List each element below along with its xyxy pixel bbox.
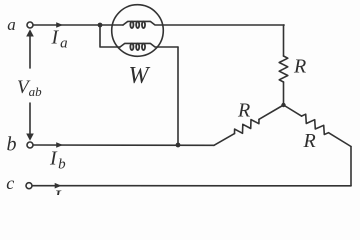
resistor R (phase a, vertical)	[279, 56, 288, 82]
svg-text:Ia: Ia	[51, 27, 68, 52]
wire: neutral node to right diagonal resistor	[284, 105, 302, 116]
voltage coil loop 2	[136, 44, 139, 51]
current coil loop 1	[130, 22, 133, 29]
svg-text:R: R	[237, 100, 250, 122]
wattmeter W current coil (in line a)	[123, 21, 284, 25]
svg-text:a: a	[7, 15, 16, 34]
current coil loop 2	[136, 22, 139, 29]
wire: voltage coil right lead down to line b	[177, 47, 179, 145]
node: junction dot on line a (voltage coil tap)	[98, 23, 103, 28]
current coil loop 3	[142, 22, 145, 29]
wire: diagonal down to line b corner	[214, 134, 235, 146]
arrowhead Vab up (at a)	[26, 29, 34, 36]
svg-text:c: c	[6, 173, 14, 193]
wire: resistor to neutral node	[283, 82, 285, 105]
svg-text:b: b	[7, 134, 17, 156]
terminal a	[27, 22, 33, 28]
resistor R (phase b diagonal)	[235, 119, 260, 133]
svg-text:W: W	[129, 63, 151, 89]
resistor R (phase c diagonal)	[302, 114, 329, 134]
voltage coil loop 3	[142, 44, 145, 51]
voltage coil loop 1	[130, 44, 133, 51]
voltage arrow Vab upper segment	[29, 33, 31, 68]
terminal b	[27, 142, 33, 148]
wire: right side vertical from line a corner down to resistor R top	[283, 25, 286, 56]
svg-text:Vab: Vab	[17, 77, 42, 99]
svg-text:Ic: Ic	[53, 187, 70, 196]
wattmeter W body circle	[112, 5, 164, 57]
wire: right edge vertical down	[350, 147, 352, 186]
arrowhead Ib	[56, 142, 63, 148]
svg-text:R: R	[293, 56, 306, 78]
wire line c	[32, 185, 351, 187]
wire line a: terminal a to wattmeter current coil	[33, 24, 123, 26]
wire: voltage coil tap from node on line a down and right	[100, 25, 120, 47]
wire: neutral node to left diagonal resistor	[259, 105, 284, 119]
node: junction dot on line b (voltage coil return)	[176, 143, 181, 148]
terminal c	[26, 183, 32, 189]
wire: diagonal to bottom-right corner	[329, 133, 352, 147]
wattmeter W voltage coil	[120, 43, 178, 47]
svg-text:Ib: Ib	[49, 148, 66, 173]
wire line b	[33, 144, 214, 146]
node: neutral junction dot	[281, 103, 285, 107]
arrowhead Ic	[55, 183, 62, 189]
arrowhead Ia	[56, 22, 63, 28]
arrowhead Vab down (at b)	[26, 134, 34, 141]
voltage arrow Vab lower segment	[29, 103, 31, 136]
svg-text:R: R	[303, 130, 316, 152]
